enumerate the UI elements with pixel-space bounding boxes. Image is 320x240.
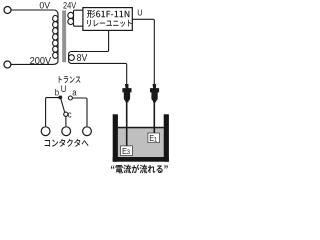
svg-text:U: U	[137, 8, 143, 18]
svg-text:3: 3	[127, 149, 131, 156]
svg-text:a: a	[72, 88, 77, 98]
svg-text:1: 1	[154, 136, 158, 143]
svg-text:c: c	[68, 110, 72, 120]
svg-text:24V: 24V	[63, 1, 77, 11]
svg-text:b: b	[55, 88, 60, 98]
svg-text:U: U	[61, 85, 67, 95]
svg-text:0V: 0V	[39, 0, 50, 10]
svg-text:8V: 8V	[77, 52, 88, 64]
svg-text:200V: 200V	[30, 55, 52, 67]
